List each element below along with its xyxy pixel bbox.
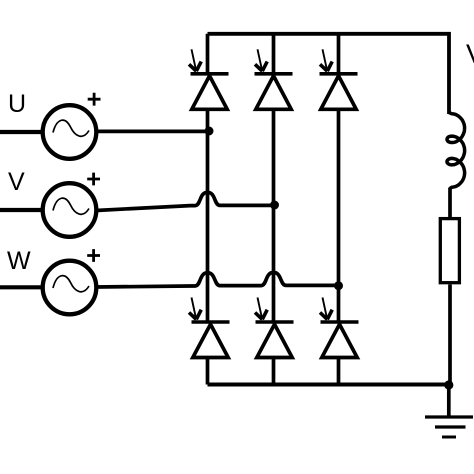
voltage source V	[43, 183, 97, 237]
wire V left stub	[0, 208, 42, 212]
thyristor lower leg2	[256, 322, 294, 358]
node U-leg1 junction	[205, 127, 214, 136]
wire leg1 vertical	[206, 34, 210, 385]
thyristor upper leg2	[255, 74, 293, 110]
svg-text:V: V	[8, 168, 25, 196]
node output bottom junction	[444, 380, 453, 389]
ground	[425, 417, 473, 437]
gate arrow upper leg1	[189, 49, 201, 71]
wire leg2 vertical	[272, 34, 276, 385]
wire W left stub	[0, 285, 42, 289]
thyristor lower leg1	[192, 322, 230, 358]
plus sign W	[87, 249, 100, 262]
svg-text:W: W	[7, 247, 31, 275]
voltage source W	[43, 261, 97, 315]
node W-leg3 junction	[334, 281, 343, 290]
gate arrow lower leg1	[189, 298, 201, 320]
inductor L	[447, 113, 465, 189]
gate arrow upper leg3	[320, 49, 332, 71]
plus sign V	[87, 173, 100, 186]
wire V to leg2 with hop over leg1	[96, 192, 274, 210]
gate arrow upper leg2	[255, 49, 267, 71]
gate arrow lower leg2	[255, 298, 267, 320]
svg-text:Vd: Vd	[466, 39, 474, 69]
top bus and right rail	[208, 34, 450, 114]
node V-leg2 junction	[270, 201, 279, 210]
wire W to leg3 with hops over leg1 and leg2	[96, 272, 339, 287]
wire resistor to bottom node	[448, 285, 452, 386]
thyristor upper leg3	[320, 74, 358, 110]
thyristor upper leg1	[191, 74, 229, 110]
wire inductor to resistor	[448, 188, 452, 220]
wire leg3 vertical	[337, 34, 341, 385]
voltage source U	[43, 105, 97, 159]
thyristor lower leg3	[321, 322, 359, 358]
wire node to ground	[447, 385, 451, 417]
resistor R	[440, 219, 459, 283]
svg-text:U: U	[8, 90, 26, 118]
gate arrow lower leg3	[320, 298, 332, 320]
plus sign U	[88, 93, 101, 106]
wire U to leg1	[96, 130, 208, 134]
bottom bus	[208, 383, 450, 387]
wire U left stub	[0, 130, 42, 134]
